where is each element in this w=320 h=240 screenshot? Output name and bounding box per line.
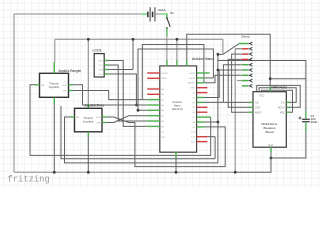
svg-text:IRQ: IRQ	[280, 111, 285, 115]
wire joystick1 VER to nano L6	[73, 91, 147, 100]
svg-text:AREF: AREF	[161, 77, 167, 80]
joystick J1 Thumb Joystick (Joystick Rangler)	[40, 73, 69, 97]
svg-text:RST: RST	[161, 137, 166, 139]
wire joystick2 GND down	[87, 136, 89, 172]
wire switch to nano top pin1	[166, 36, 168, 60]
wire joystick2 VER cross to nano L9	[107, 116, 148, 123]
svg-text:LCD1: LCD1	[93, 49, 102, 53]
svg-text:10uF: 10uF	[311, 120, 318, 124]
junction p6/V7	[217, 69, 220, 72]
junction J2 gnd/rail D	[87, 171, 90, 174]
svg-text:MISO: MISO	[255, 111, 262, 115]
joystick J2 Thumb Joystick (Joystick Drive)	[75, 108, 103, 132]
svg-text:S1: S1	[170, 11, 174, 15]
junction rail D riser	[234, 171, 237, 174]
nano bottom pin	[175, 152, 177, 158]
junction NRF gnd	[270, 157, 273, 160]
junction T1/J2	[87, 38, 90, 41]
wire rail T1 VCC	[55, 38, 223, 40]
wire T1 riser to LCD pin3	[132, 39, 134, 69]
wire rail T4: nano pin3 to NRF VCC	[187, 34, 270, 91]
nano top pin	[186, 60, 188, 66]
svg-text:D1/TX: D1/TX	[189, 73, 196, 75]
nano left pin labels	[161, 73, 169, 139]
svg-text:RESET: RESET	[161, 73, 169, 75]
battery BAT1 4xAA	[141, 13, 147, 15]
wire rail T3	[138, 49, 213, 110]
svg-text:VER: VER	[63, 91, 68, 93]
wire nano R6 riser	[205, 70, 220, 98]
wire NRF MOSI loop	[257, 85, 301, 107]
wire servo p4 to NRF SCK	[228, 59, 248, 107]
svg-text:Joystick: Joystick	[48, 85, 59, 89]
wire NRF CS loop	[259, 88, 296, 103]
servo pin angle connectors	[249, 42, 253, 88]
wire nano R3 to servo p7	[205, 75, 242, 83]
wire rail B	[61, 106, 215, 159]
svg-text:VCC: VCC	[98, 65, 103, 67]
nano right pin labels	[188, 73, 196, 144]
wire joystick2 HOR cross to rail E loop nano R12	[107, 117, 226, 167]
wire T1 to nano top pin2	[176, 39, 178, 60]
svg-text:GND: GND	[190, 88, 195, 90]
wire NRF IRQ loop	[262, 90, 293, 112]
wire servo p5 drop to CE line	[223, 65, 241, 103]
wire T1 to joystick1 VCC	[54, 39, 56, 62]
wire nano GND down	[175, 158, 177, 172]
wire battery to switch	[161, 13, 167, 15]
wire servo p3 to NRF MISO	[232, 54, 249, 112]
junction diag/V7	[217, 53, 220, 56]
wire joystick1 SEL rail A loop to nano R10	[30, 85, 211, 156]
nano top pin	[166, 60, 168, 66]
wire T3 into nano L8	[138, 109, 147, 111]
svg-text:Servo: Servo	[242, 34, 250, 38]
wire nano R2 to rail T3	[205, 77, 214, 79]
wire servo p6 to V7	[218, 69, 241, 71]
NRF24L01 breakout U2	[253, 92, 286, 148]
svg-text:Joystick: Joystick	[83, 120, 94, 124]
wire rail C: joystick2 SEL to V7 spine	[65, 53, 218, 163]
wire joystick1 GND down	[53, 101, 55, 172]
servo 9-pin header J3	[239, 43, 248, 45]
svg-text:VER: VER	[96, 123, 101, 125]
svg-text:(Rev3.0): (Rev3.0)	[172, 107, 183, 111]
LCD1 I2C display	[94, 54, 104, 77]
wire joystick1 HOR to nano L7	[73, 85, 147, 105]
svg-text:GND: GND	[98, 61, 103, 63]
wire rail B link to nano R13	[207, 136, 215, 138]
svg-text:VCC: VCC	[259, 94, 265, 98]
svg-text:fritzing: fritzing	[8, 175, 50, 185]
nano right pin stubs	[197, 72, 210, 74]
wire vcc branch to capacitor	[270, 78, 306, 80]
svg-text:CE: CE	[255, 101, 259, 105]
wire rail D (bottom gnd) + right riser to servo p2	[14, 49, 235, 173]
svg-text:Joystick Rangler: Joystick Rangler	[58, 69, 82, 73]
nano top pin	[176, 60, 178, 66]
wire servo p2 to rail D riser	[235, 48, 241, 50]
junction T3/L8	[137, 109, 140, 112]
svg-text:4xAA: 4xAA	[158, 8, 166, 12]
svg-text:CS: CS	[281, 101, 285, 105]
wire gnd junction down to rail D	[235, 158, 271, 172]
svg-text:Board: Board	[265, 130, 273, 134]
svg-text:Joystick Drive: Joystick Drive	[84, 104, 104, 108]
junction NRF vcc branch	[269, 77, 272, 80]
arduino nano U1	[160, 66, 197, 152]
wire cap bottom to gnd junction	[271, 126, 306, 159]
wire cap top feed	[218, 61, 306, 115]
wire servo p1 riser from T1	[222, 39, 224, 54]
junction LCDp4/L7	[135, 104, 138, 107]
wire servo p1 diagonal	[218, 44, 239, 55]
wire outer loop: top feed + left drop	[14, 14, 147, 172]
junction J1 gnd/rail D	[53, 171, 56, 174]
svg-text:D0/RX: D0/RX	[189, 78, 196, 80]
junction nano gnd/rail D	[175, 171, 178, 174]
svg-text:NRF24L01: NRF24L01	[272, 86, 288, 90]
wire LCD pin4 drop to nano L7 line	[109, 74, 137, 105]
svg-text:MOSI: MOSI	[278, 106, 285, 110]
capacitor C1	[305, 111, 307, 119]
wire LCD pin2 to nano L10	[109, 65, 148, 121]
wire LCD pin3 to T1 riser	[109, 69, 134, 71]
wire T1 to joystick2 VCC	[87, 39, 89, 103]
svg-text:RESET: RESET	[188, 83, 196, 85]
wire nano R7 to NRF CE	[205, 101, 249, 103]
wire LCD pin1 to nano L11	[109, 61, 148, 127]
junction T1/nano	[176, 38, 179, 41]
switch S1	[166, 13, 168, 17]
junction T1/LCD	[132, 38, 135, 41]
svg-text:HOR: HOR	[63, 85, 68, 87]
junction R11/V7	[217, 121, 220, 124]
svg-text:SCK: SCK	[255, 106, 261, 110]
svg-text:Arduino Nano: Arduino Nano	[192, 57, 213, 61]
wire rail B riser	[214, 137, 216, 159]
wire nano R11 to V7	[205, 121, 218, 123]
nano left pin stubs	[147, 72, 160, 74]
svg-text:HOR: HOR	[96, 117, 101, 119]
wire rail T2	[142, 45, 204, 100]
svg-text:SDA: SDA	[99, 69, 104, 72]
svg-text:Gnd: Gnd	[268, 143, 273, 147]
wire NRF gnd down	[270, 152, 272, 158]
